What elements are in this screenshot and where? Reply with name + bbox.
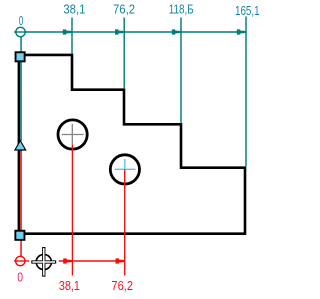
dimension line red (with gap for cursor symbol) xyxy=(59,260,125,262)
hole circle 2 xyxy=(110,155,139,184)
red extension line from hole 1 xyxy=(71,145,73,276)
svg-text:0: 0 xyxy=(19,13,24,28)
red extension line y (left vertical red) xyxy=(20,151,22,257)
svg-text:76,2: 76,2 xyxy=(111,278,133,293)
grip square bottom-left xyxy=(15,231,24,240)
svg-text:38,1: 38,1 xyxy=(63,1,85,16)
ordinate dimension X origin circle (teal) xyxy=(14,27,27,36)
part outline xyxy=(19,55,245,234)
extension line 38,1 xyxy=(71,18,73,54)
hole circle 1 xyxy=(58,120,87,149)
centerline cross hole 2 (light blue) xyxy=(115,159,136,169)
svg-text:0: 0 xyxy=(17,269,23,284)
red arrow at 38,1 xyxy=(63,258,72,263)
extension line x=0 (left vertical teal) xyxy=(20,37,22,141)
extension line 76,2 xyxy=(123,18,125,89)
red arrow at 76,2 xyxy=(116,258,125,263)
extension line 165,1 xyxy=(245,17,247,167)
red extension line from hole 2 xyxy=(124,169,126,275)
grip triangle midpoint xyxy=(15,141,26,150)
dimension line X (teal) xyxy=(25,31,246,33)
svg-text:38,1: 38,1 xyxy=(59,278,80,293)
centerline cross hole 1 (gray) xyxy=(62,124,84,145)
ordinate dimension origin circle (red, bottom) xyxy=(14,256,29,265)
grip square top-left xyxy=(16,52,25,61)
cursor target symbol xyxy=(31,247,56,277)
svg-text:76,2: 76,2 xyxy=(113,1,135,16)
extension line 118,6 xyxy=(180,18,182,123)
arrow at 38,1 xyxy=(63,29,72,34)
svg-text:165,1: 165,1 xyxy=(235,3,260,18)
arrow at 118,6 xyxy=(172,29,181,34)
arrow at 76,2 xyxy=(115,29,124,34)
arrow at 165,1 xyxy=(237,29,246,34)
svg-text:118,Б: 118,Б xyxy=(169,1,194,16)
